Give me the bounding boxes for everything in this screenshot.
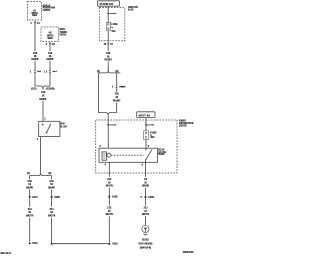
wire W1 mid segment xyxy=(34,61,36,70)
svg-text:S138: S138 xyxy=(54,197,60,199)
svg-text:18: 18 xyxy=(108,211,111,213)
svg-text:2: 2 xyxy=(37,139,39,141)
svg-text:CENTER: CENTER xyxy=(179,126,187,128)
wire node to fuse xyxy=(107,14,109,23)
svg-text:8W-42-6: 8W-42-6 xyxy=(1,251,12,255)
svg-text:5: 5 xyxy=(141,197,143,199)
svg-text:RD/WT: RD/WT xyxy=(104,60,112,62)
left branch wire below splice xyxy=(29,198,31,207)
wire to connector C109 xyxy=(145,188,147,196)
wire W2 mid segment xyxy=(49,61,51,70)
relay A/C compressor clutch xyxy=(99,148,158,162)
wire node to fuse 3 xyxy=(145,125,147,131)
svg-text:BK/TN: BK/TN xyxy=(26,216,33,218)
svg-text:TRANSMSN: TRANSMSN xyxy=(60,31,67,34)
label JUNCTION BLOCK xyxy=(128,7,138,11)
svg-text:C7: C7 xyxy=(110,44,114,46)
svg-text:A/C: A/C xyxy=(48,32,52,35)
wire fuse to JB bottom xyxy=(107,31,109,41)
svg-text:(4): (4) xyxy=(27,172,30,175)
wire label C3 12 DB/BK (right PDC exit) xyxy=(142,179,150,188)
svg-text:JS004745: JS004745 xyxy=(183,251,195,254)
wire label left branch xyxy=(26,181,34,190)
svg-text:RD/WT: RD/WT xyxy=(113,100,121,102)
wire label right branch lower xyxy=(48,209,55,218)
label RELAY A/C COMPRESSOR CLUTCH xyxy=(158,149,166,156)
wire below JB xyxy=(107,41,109,51)
label MODULE-POWERTRAIN CONTROL xyxy=(43,5,56,12)
pin 4 connector C1 under PCM xyxy=(30,22,40,25)
svg-text:S110: S110 xyxy=(32,243,38,245)
svg-text:CONTROL: CONTROL xyxy=(43,10,51,12)
right branch middle xyxy=(116,88,118,92)
svg-text:(C2): (C2) xyxy=(31,89,36,91)
power tag ST-RUN A21 xyxy=(98,1,120,6)
node and feed arrow left in PDC xyxy=(107,124,117,126)
connector dot C109 xyxy=(141,196,155,199)
svg-text:Z12: Z12 xyxy=(143,207,148,209)
svg-text:18: 18 xyxy=(50,212,53,214)
wire label Z12 18 BK/TN lower xyxy=(106,207,113,216)
svg-text:SENSE: SENSE xyxy=(32,15,37,17)
svg-text:C2: C2 xyxy=(52,44,56,46)
svg-text:BODY GROUND: BODY GROUND xyxy=(139,243,153,245)
wire label F35 18 LG (right branch) xyxy=(113,94,121,103)
wire label F35 18 LG xyxy=(104,53,112,61)
bottom horizontal wire to S125 xyxy=(52,243,110,245)
svg-text:2: 2 xyxy=(100,146,102,148)
svg-text:40A: 40A xyxy=(150,136,155,139)
svg-text:18: 18 xyxy=(115,97,118,99)
wire label C18 18 DB/PK (left wire) xyxy=(31,53,39,61)
svg-text:FUSE: FUSE xyxy=(111,24,118,26)
svg-text:18: 18 xyxy=(107,57,110,59)
svg-text:10A: 10A xyxy=(111,30,116,33)
wire label left branch lower xyxy=(26,209,33,218)
svg-text:1: 1 xyxy=(30,72,32,74)
svg-text:12: 12 xyxy=(144,211,147,213)
wire label Z12 18 BK/TN (left PDC exit) xyxy=(106,179,113,188)
fuse 4 (JB) xyxy=(106,22,110,30)
svg-text:S110: S110 xyxy=(112,243,118,245)
svg-text:(6): (6) xyxy=(48,173,51,175)
svg-text:BLOCK: BLOCK xyxy=(128,9,134,11)
split bracket below JB xyxy=(98,72,121,73)
right branch wire to bottom junction xyxy=(51,218,53,245)
split bracket xyxy=(30,174,52,175)
svg-text:MODULE-: MODULE- xyxy=(60,29,66,31)
switch A/C low pressure xyxy=(39,121,60,136)
svg-text:BK/TN: BK/TN xyxy=(48,216,55,218)
svg-text:BK/TN: BK/TN xyxy=(106,214,113,216)
label FUSE 4 10A xyxy=(111,24,118,33)
battery tag BATT A0 xyxy=(137,112,155,118)
wire relay coil return down xyxy=(108,162,110,177)
wire below C109 xyxy=(145,198,147,205)
inline connector C110 xyxy=(112,85,125,88)
svg-text:16: 16 xyxy=(104,44,107,46)
wire W1 upper segment xyxy=(34,20,36,51)
relay pin labels top xyxy=(100,146,150,148)
ground G101 symbol xyxy=(142,225,149,235)
merge bracket labels xyxy=(31,89,54,91)
label POWER DISTRIBUTION CENTER xyxy=(179,121,194,128)
wire label C18 18 DB/PK (right wire) xyxy=(46,53,54,61)
svg-text:2: 2 xyxy=(46,71,48,73)
svg-text:SWITCH: SWITCH xyxy=(47,35,54,37)
wire to split bracket xyxy=(107,61,109,71)
right branch wire to splice xyxy=(51,190,53,196)
svg-text:Z12: Z12 xyxy=(50,209,55,211)
inline connector C126 on W1 xyxy=(30,70,41,73)
svg-text:4: 4 xyxy=(111,27,113,30)
svg-text:3: 3 xyxy=(148,146,150,148)
wire label right branch xyxy=(48,181,56,190)
wire to ground xyxy=(145,216,147,225)
svg-text:SWITCH-: SWITCH- xyxy=(60,123,65,125)
splice S138 xyxy=(51,196,61,199)
svg-text:DB/PK: DB/PK xyxy=(26,187,34,189)
svg-text:2: 2 xyxy=(112,87,114,89)
wire W1 lower segment xyxy=(34,73,36,86)
pin 3 connector C2 under TCM xyxy=(46,43,56,46)
pin 16 connector C7 under JB xyxy=(104,43,114,46)
right branch upper xyxy=(116,73,118,85)
label MODULE-TRANSMISSION CONTROL xyxy=(60,29,67,36)
svg-text:F35: F35 xyxy=(115,94,120,96)
left branch of JB split xyxy=(97,73,99,113)
svg-text:BK/TN: BK/TN xyxy=(106,186,113,188)
left branch wire to bottom splice xyxy=(29,218,31,242)
svg-text:BATT A0: BATT A0 xyxy=(139,113,151,117)
svg-text:ST-RUN A21: ST-RUN A21 xyxy=(99,3,114,6)
svg-text:3: 3 xyxy=(46,44,48,46)
node and feed arrow right in PDC xyxy=(145,124,155,126)
junction node and feed arrow in JB xyxy=(107,13,117,15)
wire BATT to PDC xyxy=(145,118,147,126)
junction block (dashed) xyxy=(99,8,125,41)
module box TCM (dashed) xyxy=(41,27,59,42)
splice S128 xyxy=(108,196,118,199)
label SWITCH A/C LOW PRESSURE xyxy=(60,123,67,128)
wire W2 upper segment xyxy=(49,42,51,52)
splice S127 xyxy=(29,196,39,199)
wire left into relay xyxy=(107,120,109,148)
svg-text:18: 18 xyxy=(108,182,111,184)
wire below S128 xyxy=(108,198,110,206)
svg-text:SENSE: SENSE xyxy=(47,38,53,40)
splice S125 xyxy=(108,242,118,245)
bottom junction dot xyxy=(50,242,53,244)
svg-text:4: 4 xyxy=(30,22,32,25)
svg-text:18: 18 xyxy=(49,56,52,58)
wire fuse 3 to relay xyxy=(145,140,147,149)
svg-text:C109: C109 xyxy=(148,197,154,199)
svg-text:C3: C3 xyxy=(144,179,148,181)
svg-text:C18: C18 xyxy=(41,92,46,94)
svg-text:18: 18 xyxy=(28,212,31,214)
wire label Z12 12 BK/TN xyxy=(142,207,149,216)
wire label C18 18 DB/PK (joined wire) xyxy=(39,92,47,101)
wire to splice S128 xyxy=(108,188,110,196)
left branch wire to splice xyxy=(29,190,31,196)
svg-text:C1: C1 xyxy=(37,23,41,25)
svg-text:BK/TN: BK/TN xyxy=(142,214,149,216)
rejoin bracket xyxy=(98,113,116,114)
wire rejoin to PDC xyxy=(107,114,109,120)
module box PCM (dashed) xyxy=(28,2,42,21)
svg-text:DB/PK: DB/PK xyxy=(48,187,56,189)
svg-text:S128: S128 xyxy=(112,197,118,199)
right branch wire below splice xyxy=(51,198,53,207)
ground label G101 BODY GROUND xyxy=(139,240,153,250)
svg-text:18: 18 xyxy=(42,96,45,98)
svg-text:C18: C18 xyxy=(27,181,32,183)
svg-text:18: 18 xyxy=(34,56,37,58)
svg-text:F35: F35 xyxy=(106,53,111,55)
svg-text:C18: C18 xyxy=(49,181,54,183)
svg-text:Z12: Z12 xyxy=(107,179,112,181)
right branch lower xyxy=(116,102,118,112)
splice S126 (bottom left) xyxy=(29,242,39,245)
svg-text:PRESSOR: PRESSOR xyxy=(158,154,164,156)
svg-text:6: 6 xyxy=(142,165,144,167)
wire relay output down xyxy=(145,162,147,177)
power distribution center (dashed) xyxy=(96,120,177,173)
svg-text:18: 18 xyxy=(50,184,53,186)
svg-text:C18: C18 xyxy=(33,53,38,55)
svg-text:4: 4 xyxy=(105,164,107,167)
svg-text:Z12: Z12 xyxy=(28,209,33,211)
svg-text:Z12: Z12 xyxy=(107,207,112,209)
split bracket labels (4) (6) xyxy=(27,172,52,175)
split bracket labels (2) (8) xyxy=(97,71,119,73)
svg-text:(C200): (C200) xyxy=(46,89,55,91)
inline connector C231 on W2 xyxy=(44,70,57,73)
svg-text:C18: C18 xyxy=(48,53,53,55)
fuse 3 (PDC) xyxy=(144,131,149,140)
wire W2 lower segment xyxy=(49,73,51,86)
svg-text:18: 18 xyxy=(28,184,31,186)
svg-text:DB/BK: DB/BK xyxy=(142,186,150,188)
label FUSE 3 40A xyxy=(150,132,157,139)
wire tag to junction block xyxy=(107,6,109,13)
svg-text:CONTROL: CONTROL xyxy=(60,35,67,37)
svg-text:G101: G101 xyxy=(142,240,150,242)
wire W3 to low pressure switch xyxy=(42,87,44,121)
svg-text:(8W-15-6): (8W-15-6) xyxy=(140,247,152,249)
svg-text:S127: S127 xyxy=(32,197,38,199)
merge bracket joining W1 and W2 xyxy=(35,86,50,87)
right branch wire upper xyxy=(51,176,53,180)
svg-text:A/C LOW: A/C LOW xyxy=(60,126,67,129)
svg-text:1: 1 xyxy=(44,119,46,121)
wire W4 below switch xyxy=(40,137,42,175)
svg-text:12: 12 xyxy=(144,182,147,184)
svg-text:DB/PK: DB/PK xyxy=(39,99,47,101)
left branch wire upper xyxy=(29,176,31,180)
wire to bottom splice S125 xyxy=(108,216,110,242)
relay pin labels bottom xyxy=(105,164,144,167)
